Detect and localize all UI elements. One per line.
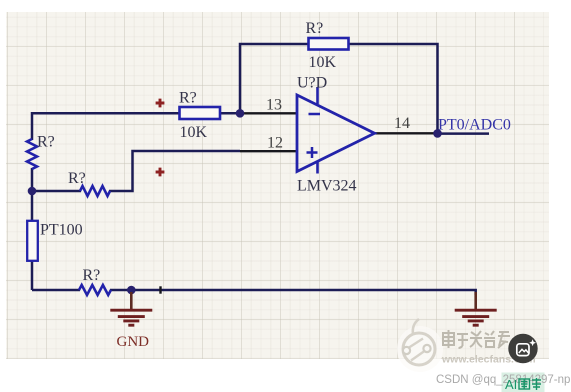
svg-text:CSDN @qq_25814297-npl: CSDN @qq_25814297-npl xyxy=(436,374,571,386)
svg-text:R?: R? xyxy=(306,20,324,37)
svg-text:R?: R? xyxy=(179,90,197,107)
svg-text:LMV324: LMV324 xyxy=(297,178,357,195)
svg-text:10K: 10K xyxy=(309,54,337,71)
svg-text:GND: GND xyxy=(117,334,150,350)
svg-text:PT100: PT100 xyxy=(40,222,83,239)
svg-text:AI: AI xyxy=(505,377,517,392)
svg-text:PT0/ADC0: PT0/ADC0 xyxy=(438,116,511,133)
svg-text:U?D: U?D xyxy=(297,75,327,92)
svg-text:14: 14 xyxy=(394,115,410,132)
svg-text:R?: R? xyxy=(68,170,86,187)
svg-text:13: 13 xyxy=(266,96,282,113)
svg-text:12: 12 xyxy=(267,135,283,152)
svg-text:R?: R? xyxy=(37,134,55,151)
svg-text:R?: R? xyxy=(83,267,101,284)
svg-text:10K: 10K xyxy=(180,124,208,141)
